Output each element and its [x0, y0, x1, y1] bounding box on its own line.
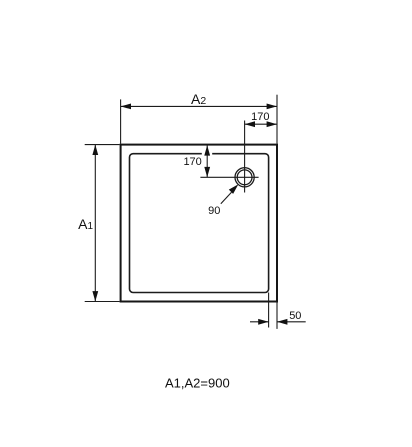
svg-text:50: 50: [289, 310, 301, 322]
svg-text:A1,A2=900: A1,A2=900: [165, 376, 230, 391]
svg-text:90: 90: [208, 205, 220, 217]
svg-text:170: 170: [251, 111, 269, 123]
svg-text:170: 170: [183, 156, 201, 168]
